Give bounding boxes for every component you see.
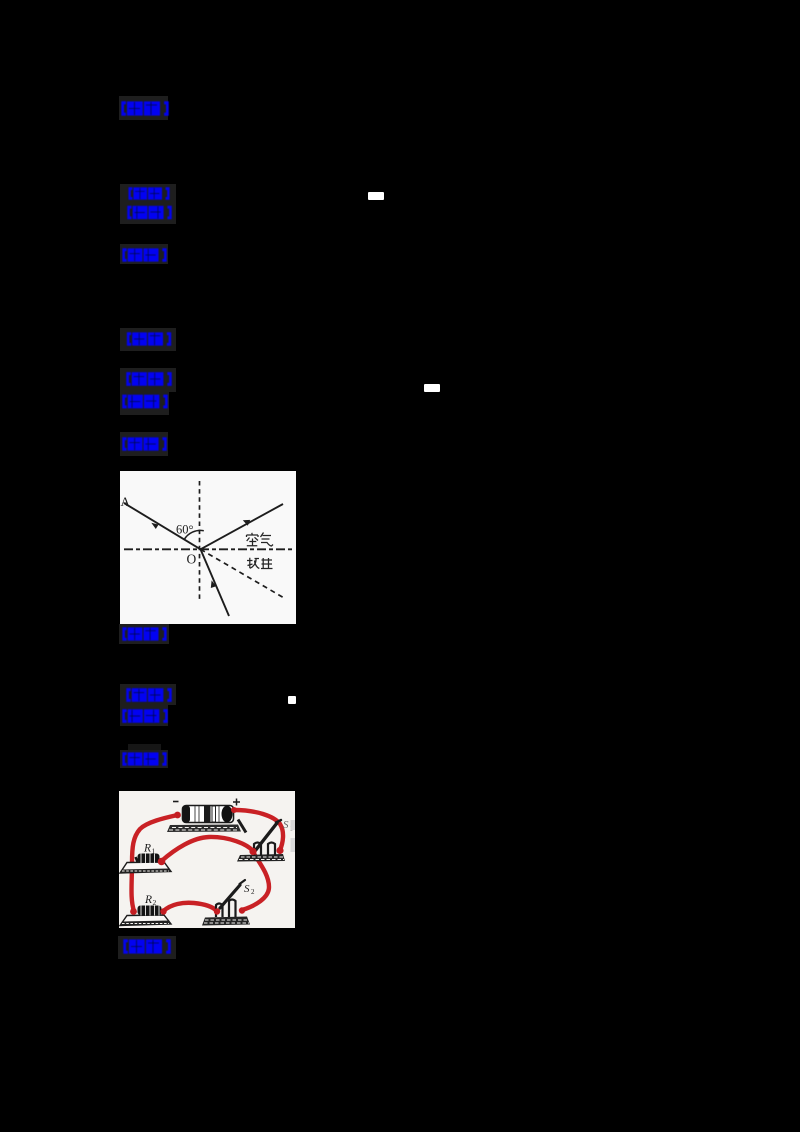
- label jiexi3: [122, 708, 168, 724]
- svg-text:R: R: [144, 894, 152, 906]
- label kongqi (air): [247, 533, 274, 547]
- svg-text:R: R: [143, 843, 151, 855]
- svg-text:O: O: [187, 552, 197, 567]
- highlight box 3: [120, 244, 168, 264]
- reflected arrow: [243, 520, 250, 526]
- svg-text:60°: 60°: [176, 523, 194, 537]
- reflected ray: [201, 504, 284, 549]
- label jiexi: [127, 205, 172, 220]
- switch S1 lever: [255, 823, 277, 851]
- label boli (glass): [247, 558, 273, 569]
- highlight box 1: [119, 96, 168, 120]
- label dianjing: [123, 939, 171, 954]
- formula image 1: [368, 192, 384, 200]
- resistor R2 body: [138, 905, 162, 916]
- highlight box 4: [120, 328, 176, 351]
- label xiangjie1: [122, 248, 167, 262]
- wire R2 to S2: [164, 903, 218, 911]
- label kaodian: [126, 187, 172, 200]
- minus sign: [173, 801, 179, 803]
- resistor R1 base: [120, 862, 171, 873]
- highlight box 5 (two lines, L-shape): [120, 368, 176, 392]
- wire S2 to S1 junction: [242, 852, 269, 910]
- svg-text:A: A: [121, 494, 131, 509]
- incident ray A-O: [124, 503, 201, 549]
- label kaodian2: [126, 371, 172, 387]
- label answer1: [121, 101, 169, 116]
- formula image 2: [424, 384, 440, 392]
- battery cells: [183, 806, 234, 823]
- svg-text:S: S: [283, 819, 289, 831]
- FIGURE 2 : photo-style circuit: [119, 791, 295, 928]
- svg-text:1: 1: [152, 847, 156, 856]
- faint smudge above box 9: [128, 744, 161, 750]
- switch S2 base: [202, 917, 250, 926]
- wire battery- to R2: [132, 815, 178, 911]
- resistor R2 base: [120, 915, 171, 926]
- junction blobs: [130, 807, 283, 915]
- dashed straight-through ray: [201, 549, 286, 598]
- formula image 3: [288, 696, 296, 704]
- wire R1 to S1: [162, 837, 254, 861]
- highlight box 2 (two lines): [120, 184, 176, 224]
- refracted ray into glass: [201, 549, 230, 616]
- switch S1 clips: [254, 843, 275, 857]
- resistor R1 body: [136, 853, 160, 863]
- label jiexi2: [122, 394, 168, 409]
- svg-text:S: S: [244, 883, 250, 895]
- highlight box 6: [120, 432, 168, 456]
- label answer3: [121, 627, 168, 641]
- highlight box 10: [118, 936, 176, 959]
- label xiangjie3: [122, 752, 167, 766]
- highlight box 8 (two lines, L-shape): [120, 684, 176, 705]
- label kaodian3: [126, 687, 172, 703]
- FIGURE 1 : refraction diagram: [120, 471, 296, 624]
- switch S2 lever: [220, 885, 240, 908]
- label answer2: [126, 332, 172, 346]
- wire battery+ to S1: [234, 810, 283, 850]
- switch S1 base: [237, 854, 285, 862]
- battery base board: [167, 820, 246, 833]
- normal (dashed vertical): [199, 481, 201, 602]
- angle arc 60: [184, 530, 204, 539]
- refracted arrow: [211, 580, 216, 588]
- label xiangjie2: [122, 436, 167, 452]
- switch S2 clips: [216, 900, 236, 918]
- svg-text:2: 2: [153, 898, 157, 907]
- highlight box 9: [120, 750, 168, 768]
- svg-text:2: 2: [251, 888, 255, 896]
- plus sign: [233, 799, 240, 806]
- jpeg artifact blocks near S1: [291, 820, 296, 830]
- highlight box 7: [119, 624, 169, 644]
- interface line air/glass: [124, 548, 295, 550]
- incident arrow: [151, 523, 158, 529]
